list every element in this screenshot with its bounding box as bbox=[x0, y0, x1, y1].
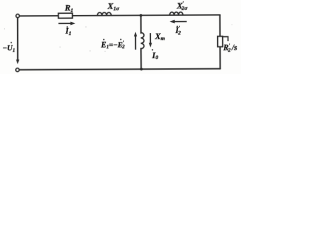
svg-text:I′2: I′2 bbox=[174, 25, 181, 36]
svg-text:X1σ: X1σ bbox=[107, 1, 120, 13]
svg-text:X′2σ: X′2σ bbox=[176, 0, 189, 12]
svg-text:E1=−E′2: E1=−E′2 bbox=[100, 40, 125, 50]
svg-text:−U1: −U1 bbox=[3, 43, 16, 53]
svg-text:R′2/s: R′2/s bbox=[222, 43, 237, 54]
svg-text:I1: I1 bbox=[64, 27, 71, 37]
svg-text:R1: R1 bbox=[64, 3, 74, 15]
svg-text:I0: I0 bbox=[151, 50, 158, 61]
svg-text:Xm: Xm bbox=[154, 31, 166, 42]
